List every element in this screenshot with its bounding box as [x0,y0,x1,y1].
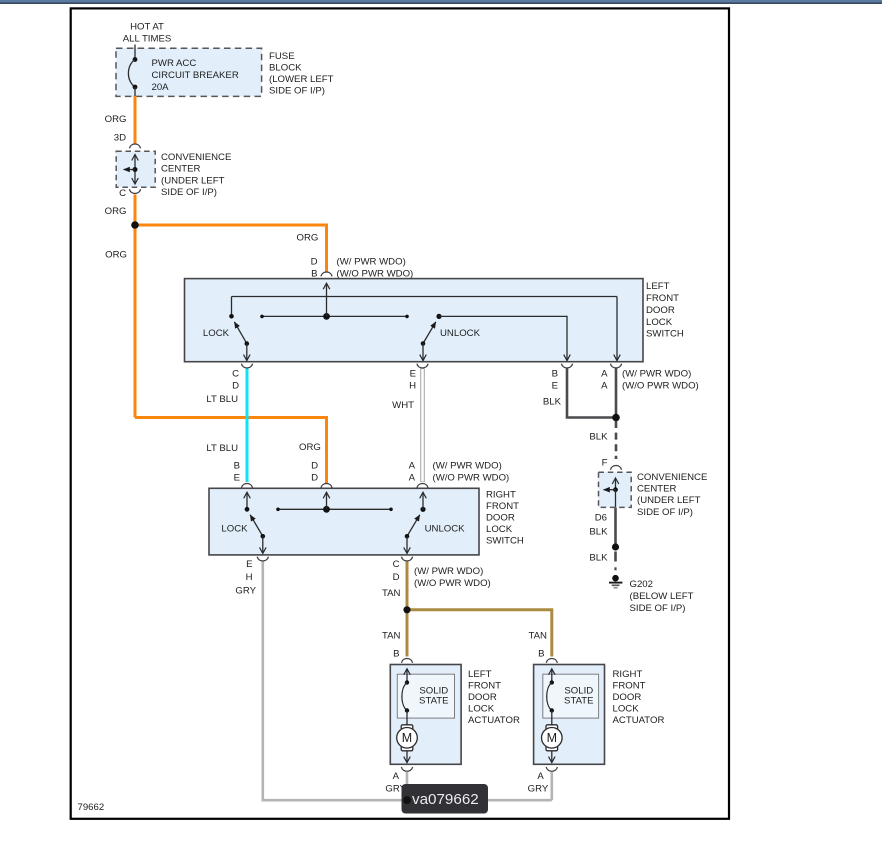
svg-text:LOCK: LOCK [203,328,230,339]
svg-text:(W/ PWR WDO): (W/ PWR WDO) [433,460,502,471]
svg-text:UNLOCK: UNLOCK [425,524,466,535]
wire ORG breaker to connector 3D [134,96,137,145]
label HOT AT ALL TIMES [123,22,172,45]
right actuator solid state block [543,674,599,718]
node unlock pivot [436,314,441,319]
dashed wire BLK to ground [614,552,617,571]
connector at left switch pin C/D [241,364,252,368]
svg-text:STATE: STATE [419,696,449,707]
svg-text:SIDE OF I/P): SIDE OF I/P) [269,85,325,96]
left front door lock actuator box [390,665,461,765]
motor M1 (left actuator) [397,725,418,751]
wire BLK convenience center to junction [614,508,617,546]
svg-text:LOCK: LOCK [486,524,513,535]
left switch lock-side drop wire [231,297,233,317]
svg-text:STATE: STATE [564,696,594,707]
wire ORG connector C to junction [134,195,137,226]
svg-text:DOOR: DOOR [613,692,642,703]
svg-text:WHT: WHT [392,400,414,411]
svg-text:A: A [409,460,416,471]
right front door lock switch side label [486,489,524,546]
circuit breaker value label [152,58,239,93]
left switch pin B/E labels [552,368,558,391]
svg-text:M: M [547,731,557,745]
svg-text:GRY: GRY [528,784,549,795]
svg-text:BLK: BLK [543,396,562,407]
left actuator side label [468,669,520,726]
svg-text:TAN: TAN [382,588,401,599]
unlock pivot to pin A arrow [422,492,424,509]
right switch pin A/A labels [409,460,416,483]
convenience center internal arrows [604,478,618,507]
unlock blade to pin E arrow [422,344,424,361]
left front door lock switch box [185,279,644,362]
convenience center side label [637,472,707,518]
connector F [610,466,621,470]
svg-text:D: D [311,257,318,268]
common bus to pin B arrow [326,283,328,316]
svg-text:TAN: TAN [382,631,401,642]
svg-text:B: B [393,649,399,660]
svg-text:ORG: ORG [105,250,127,261]
connector at right switch pin B [241,484,252,488]
left switch pin A/A labels [601,368,608,391]
svg-text:(W/ PWR WDO): (W/ PWR WDO) [622,368,691,379]
right switch pin B/E labels [234,460,240,483]
lock pivot to pin B arrow [246,492,248,509]
svg-text:3D: 3D [114,133,126,144]
wire LT BLU to right switch pin B [246,369,249,483]
left actuator output arrow [406,751,408,763]
svg-text:ORG: ORG [299,442,321,453]
wire ORG junction down the left side [134,225,137,418]
fuse block (dashed box) [116,48,262,96]
svg-text:SWITCH: SWITCH [486,536,524,547]
svg-text:A: A [393,771,400,782]
connector 3D [129,144,140,148]
right front door lock switch box [209,488,479,555]
connector at left switch pin E/H [417,364,428,368]
svg-text:UNLOCK: UNLOCK [440,328,481,339]
svg-text:LOCK: LOCK [613,704,640,715]
switch blade UNLOCK [421,322,436,346]
svg-text:DOOR: DOOR [486,513,515,524]
right switch common bus wire [276,508,393,512]
connector at right switch pin C/D [401,557,412,561]
junction node ORG [131,221,139,229]
watermark tag va079662 [402,784,489,814]
svg-text:20A: 20A [152,82,170,93]
pin A variant notes [433,460,510,483]
svg-text:FRONT: FRONT [468,681,501,692]
left actuator solid state block [397,674,454,718]
diagram frame [71,8,729,818]
browser top bar [0,0,882,4]
svg-text:SIDE OF I/P): SIDE OF I/P) [630,603,686,614]
wire GRY right actuator pin A to ground bus [550,772,553,800]
svg-text:FRONT: FRONT [613,681,646,692]
svg-text:D: D [311,460,318,471]
wire TAN junction to right actuator [407,610,552,657]
svg-text:DOOR: DOOR [646,305,675,316]
convenience center box (right, under left side of I/P) [599,472,632,507]
svg-text:PWR ACC: PWR ACC [152,58,197,69]
wire TAN junction to left actuator [406,610,409,657]
right actuator solid state element [547,680,554,725]
left switch pin D/B labels [311,257,318,280]
svg-text:(LOWER LEFT: (LOWER LEFT [269,74,334,85]
left actuator solid state element [402,680,409,725]
convenience center box (under left side of I/P) [116,151,155,187]
svg-text:G202: G202 [630,579,653,590]
switch blade LOCK [250,515,265,539]
left front door lock switch side label [646,281,684,340]
svg-text:BLK: BLK [589,527,608,538]
node lock pivot [245,507,250,512]
svg-text:D: D [311,472,318,483]
svg-text:B: B [552,368,558,379]
svg-text:CENTER: CENTER [637,484,677,495]
pin C variant notes [414,566,491,589]
wire TAN right switch pin C to junction [406,562,409,610]
node unlock pivot [420,507,425,512]
svg-text:GRY: GRY [235,586,256,597]
svg-text:HOT AT: HOT AT [130,22,164,33]
circuit breaker PWR ACC 20A [128,45,137,97]
svg-text:E: E [552,380,558,391]
right switch pin E/H labels [246,559,253,583]
svg-text:BLK: BLK [589,432,608,443]
unlock blade to pin C arrow [406,536,408,553]
svg-text:(W/O PWR WDO): (W/O PWR WDO) [433,472,510,483]
svg-text:(W/O PWR WDO): (W/O PWR WDO) [414,578,491,589]
svg-text:D: D [393,572,400,583]
wire ORG to right door lock switch pin D (horizontal + drop) [135,418,327,484]
convenience center internal bus arrows [124,155,138,185]
connector at left switch pin A/A [610,364,621,368]
junction node GRY [403,796,411,804]
svg-text:ACTUATOR: ACTUATOR [468,715,520,726]
svg-text:(BELOW LEFT: (BELOW LEFT [630,591,694,602]
svg-text:F: F [602,458,608,469]
switch blade UNLOCK [405,515,420,539]
right switch pin D/D labels [311,460,318,483]
svg-text:M: M [402,731,412,745]
junction node common bus [323,506,330,513]
connector at left actuator pin B [401,659,412,663]
junction node TAN [403,606,410,613]
svg-text:D6: D6 [595,513,607,524]
svg-text:TAN: TAN [529,631,548,642]
left switch top bus wire [232,296,618,298]
svg-text:E: E [246,559,252,570]
wire GRY left actuator pin A to ground bus [406,772,409,800]
left actuator input arrow [406,669,408,683]
svg-text:ORG: ORG [105,114,127,125]
wire BLK left switch pin B to junction [567,369,614,418]
svg-text:SIDE OF I/P): SIDE OF I/P) [161,187,217,198]
svg-text:LEFT: LEFT [468,669,492,680]
unlock pivot to pin B(E) wire [439,316,567,360]
right front door lock actuator box [534,665,605,765]
left actuator SOLID STATE label [419,686,449,707]
dashed wire BLK junction to connector F [615,421,618,459]
fuse block side label [269,51,334,96]
connector at right actuator pin A [546,767,557,771]
right switch pin C/D labels [393,559,400,583]
connector C [129,189,140,193]
svg-text:C: C [393,559,400,570]
svg-text:LT BLU: LT BLU [206,443,238,454]
pin A variant notes [622,368,699,391]
wire BLK left switch pin A to junction [615,369,618,416]
svg-text:RIGHT: RIGHT [486,489,516,500]
svg-text:C: C [232,369,239,380]
svg-text:(W/ PWR WDO): (W/ PWR WDO) [414,566,483,577]
connector at right switch pin D [321,484,332,488]
svg-text:LOCK: LOCK [221,524,248,535]
svg-text:CONVENIENCE: CONVENIENCE [637,472,707,483]
svg-text:DOOR: DOOR [468,692,497,703]
svg-text:E: E [234,472,240,483]
svg-text:ALL TIMES: ALL TIMES [123,34,172,45]
svg-text:ACTUATOR: ACTUATOR [613,715,665,726]
svg-text:CONVENIENCE: CONVENIENCE [161,152,231,163]
wire WHT to right switch pin A [420,369,425,483]
svg-text:C: C [119,188,126,199]
svg-text:(W/O PWR WDO): (W/O PWR WDO) [622,380,699,391]
svg-text:79662: 79662 [78,802,105,813]
svg-text:CENTER: CENTER [161,164,201,175]
ground G202 label [630,579,694,614]
svg-text:E: E [410,369,416,380]
right actuator SOLID STATE label [564,686,594,707]
left switch pin E/H labels [409,369,416,392]
top bus to pin A arrow [616,297,618,361]
lock blade to pin C arrow [246,344,248,361]
svg-text:ORG: ORG [105,206,127,217]
svg-text:CIRCUIT BREAKER: CIRCUIT BREAKER [152,70,239,81]
connector at left actuator pin A [401,767,412,771]
svg-text:ORG: ORG [297,233,319,244]
left switch pin C/D labels [232,369,239,392]
junction node BLK to ground [612,543,619,550]
svg-text:A: A [537,771,544,782]
svg-text:H: H [246,572,253,583]
connector at right switch pin A [417,484,428,488]
svg-text:B: B [234,460,240,471]
svg-text:LT BLU: LT BLU [206,394,238,405]
junction node common bus [323,313,330,320]
node lock pivot [229,314,234,319]
connector at left switch pin B [321,272,332,276]
ground G202 [609,575,622,588]
svg-text:A: A [601,368,608,379]
svg-text:BLOCK: BLOCK [269,63,302,74]
right actuator input arrow [551,669,553,683]
junction node BLK [612,414,620,422]
svg-text:LOCK: LOCK [468,704,495,715]
svg-text:SWITCH: SWITCH [646,329,684,340]
svg-text:D: D [232,381,239,392]
svg-text:B: B [538,649,544,660]
svg-text:BLK: BLK [589,553,608,564]
svg-text:(UNDER LEFT: (UNDER LEFT [161,175,225,186]
left switch common bus wire [260,315,409,319]
convenience center side label [161,152,231,198]
svg-text:LOCK: LOCK [646,317,673,328]
svg-text:va079662: va079662 [412,791,479,808]
svg-text:H: H [409,381,416,392]
right actuator output arrow [551,751,553,763]
connector at right actuator pin B [546,659,557,663]
svg-text:FRONT: FRONT [486,501,519,512]
wire GRY right switch pin E to actuator ground bus [263,562,552,801]
motor M2 (right actuator) [542,725,563,751]
connector at right switch pin E/H [257,557,268,561]
lock blade to pin E arrow [262,536,264,553]
svg-text:SIDE OF I/P): SIDE OF I/P) [637,507,693,518]
pin B variant notes [337,257,414,280]
svg-text:A: A [601,380,608,391]
connector at left switch pin B/E [561,364,572,368]
svg-text:(UNDER LEFT: (UNDER LEFT [637,495,701,506]
svg-text:A: A [409,472,416,483]
svg-text:LEFT: LEFT [646,281,670,292]
wire ORG junction to left door lock switch pin B (horizontal + drop) [135,225,327,272]
svg-text:FUSE: FUSE [269,51,295,62]
switch blade LOCK [234,322,249,346]
common bus to pin D arrow [326,492,328,509]
svg-text:RIGHT: RIGHT [613,669,643,680]
svg-text:FRONT: FRONT [646,293,679,304]
svg-text:(W/ PWR WDO): (W/ PWR WDO) [337,257,406,268]
right actuator side label [613,669,665,726]
